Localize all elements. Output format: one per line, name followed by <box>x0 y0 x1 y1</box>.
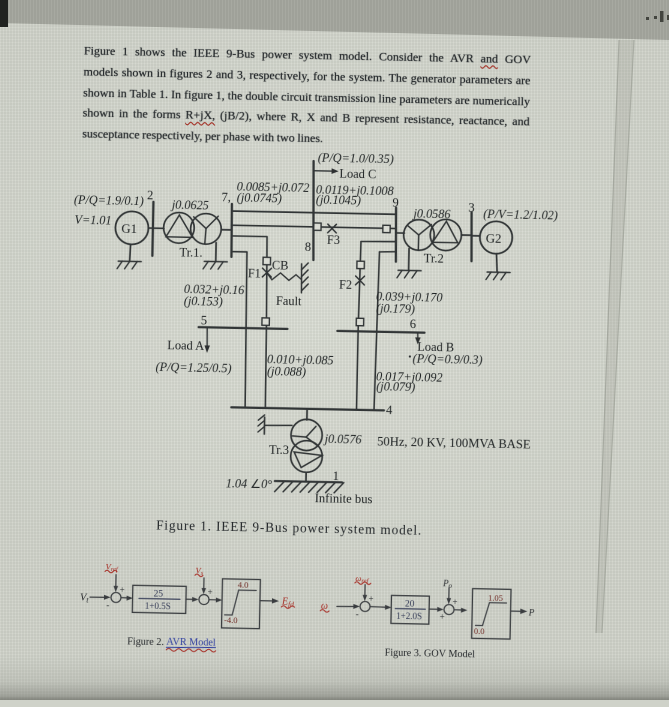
breaker square near bus 9 <box>383 225 390 232</box>
svg-text:j0.0576: j0.0576 <box>323 432 363 447</box>
fault zigzag wire <box>267 273 301 281</box>
wire summer 2 to limiter <box>209 597 222 602</box>
wire summer to block <box>121 595 133 600</box>
svg-text:F3: F3 <box>327 233 340 247</box>
svg-text:-: - <box>356 609 359 619</box>
wire Vt to summer <box>90 595 111 600</box>
figure 2 caption <box>127 637 164 649</box>
ground Tr.2 <box>397 270 421 278</box>
svg-text:1.05: 1.05 <box>488 593 503 603</box>
svg-text:-4.0: -4.0 <box>224 615 238 625</box>
ground G1 <box>117 261 141 269</box>
ground Tr.3 neutral <box>258 415 265 434</box>
svg-text:Infinite bus: Infinite bus <box>315 491 373 506</box>
omega-ref red label <box>355 573 369 585</box>
node 8 label <box>305 240 312 254</box>
wire line 7-5 / 5-4 circuit 1 <box>244 252 248 408</box>
sign plus <box>208 587 213 597</box>
sign plus <box>120 585 125 595</box>
svg-text:+: + <box>440 612 445 622</box>
svg-text:CB: CB <box>272 258 289 272</box>
limiter lower bound 0.0 <box>474 626 485 636</box>
wire branch bus7 to CB line <box>231 235 266 238</box>
generator G1 <box>115 211 149 245</box>
node 9 label <box>392 196 399 210</box>
wire branch bus9 to line 9-6 circuit 2 <box>361 241 396 242</box>
svg-text:20: 20 <box>405 600 415 610</box>
system base label <box>377 434 531 451</box>
figure 3 caption <box>385 647 476 660</box>
bus 8 <box>312 161 316 260</box>
svg-text:V=1.01: V=1.01 <box>74 213 111 228</box>
circuit breaker CB square <box>263 257 271 265</box>
svg-text:(j0.1045): (j0.1045) <box>316 193 361 208</box>
svg-text:(j0.079): (j0.079) <box>376 379 415 394</box>
load B arrow <box>415 334 421 345</box>
svg-text:Figure 2.: Figure 2. <box>127 637 164 649</box>
wire block to summer 2 <box>186 597 199 602</box>
transformer Tr.2 wye winding <box>403 219 434 250</box>
wire block to summer 2 <box>429 607 444 612</box>
omega-ref red squiggle <box>355 582 371 585</box>
summing junction U2 <box>199 594 209 604</box>
line 7-8 value labels <box>236 180 309 206</box>
wire line 5-4 circuit 2 <box>265 329 267 408</box>
svg-text:Po: Po <box>442 578 453 590</box>
output wire Efd <box>260 598 279 604</box>
GOV transfer block 20/(1+2.0S) <box>391 595 429 624</box>
svg-text:Load C: Load C <box>339 166 376 181</box>
svg-text:+: + <box>120 585 125 595</box>
wire summer 2 to limiter <box>454 608 467 613</box>
svg-text:Tr.2: Tr.2 <box>424 251 444 265</box>
input Vt label <box>80 592 90 604</box>
infinite bus voltage label <box>226 476 273 491</box>
wire branch bus7 to line 7-5 circuit 1 <box>231 251 246 253</box>
wire bus 4 to Tr.3 <box>306 409 308 420</box>
limiter upper bound 1.05 <box>488 593 503 603</box>
line 8-9 value labels <box>316 183 394 209</box>
summing junction U4 <box>444 604 454 614</box>
Vref input arrow <box>113 575 118 593</box>
node 3 label <box>468 201 475 215</box>
svg-text:1.04 ∠0°: 1.04 ∠0° <box>226 476 273 491</box>
infinite bus bar <box>275 481 342 482</box>
Efd red squiggle <box>281 606 294 609</box>
label CB <box>272 258 289 272</box>
sign minus <box>106 600 109 610</box>
value j0.0576 <box>323 432 363 447</box>
wire line 6-4 circuit 2 <box>357 331 359 409</box>
svg-text:(P/V=1.2/1.02): (P/V=1.2/1.02) <box>483 207 558 222</box>
breaker square above bus 6 <box>356 318 364 326</box>
svg-text:-: - <box>106 600 109 610</box>
wire line 9-6 circuit 2 (through F2) <box>358 241 361 331</box>
svg-text:Figure 1. IEEE 9-Bus power sy: Figure 1. IEEE 9-Bus power system model. <box>156 517 422 537</box>
sign plus <box>452 597 457 607</box>
wire bus 9 to Tr.2 <box>396 232 404 234</box>
limiter block <box>472 589 511 639</box>
load B name <box>417 339 454 354</box>
load C value label <box>318 151 394 167</box>
transformer Tr.2 delta winding <box>430 219 462 251</box>
ground G2 <box>486 272 510 280</box>
Pm label <box>528 607 535 617</box>
bus 9 <box>395 208 397 262</box>
svg-text:Tr.1.: Tr.1. <box>179 245 202 259</box>
fault point F2 cross <box>356 276 365 285</box>
Po input arrow <box>446 588 451 604</box>
ground stem Tr.1 <box>215 243 217 261</box>
Vref red squiggle <box>105 570 117 573</box>
limiter block <box>222 579 261 629</box>
wire Tr.1 to bus 7 <box>221 229 231 231</box>
summing junction U3 <box>360 601 370 611</box>
input omega red label <box>321 601 328 612</box>
wire Tr.3 to infinite bus <box>305 472 307 481</box>
figure 1 caption <box>156 517 422 537</box>
svg-text:AVR Model: AVR Model <box>166 637 216 649</box>
ground stem G2 <box>496 254 497 272</box>
AVR transfer block 25/(1+0.5S) <box>132 585 186 613</box>
svg-text:5: 5 <box>201 313 208 327</box>
omega red squiggle <box>320 609 329 612</box>
figure 2 caption link AVR Model <box>166 637 216 649</box>
svg-text:Efd: Efd <box>281 596 294 608</box>
wire line 7-5 circuit 2 (through CB) <box>265 237 268 329</box>
Po label <box>442 578 453 590</box>
Vs red label <box>195 565 203 577</box>
label F2 <box>339 277 352 291</box>
svg-text:Load A: Load A <box>167 338 204 353</box>
ground stem Tr.2 <box>408 248 410 269</box>
fault point F1 cross <box>262 268 271 277</box>
label Tr.3 <box>269 443 289 457</box>
line 5-4 value labels <box>267 352 334 379</box>
sign minus <box>356 609 359 619</box>
omega-ref input arrow <box>362 585 367 602</box>
output wire Pm <box>511 608 528 614</box>
svg-text:Tr.3: Tr.3 <box>269 443 289 457</box>
svg-text:2: 2 <box>147 188 154 202</box>
label F3 <box>327 233 340 247</box>
stray dot <box>409 355 411 357</box>
fault point F3 cross <box>328 224 337 233</box>
svg-text:4: 4 <box>386 403 393 417</box>
breaker square top of F2 line <box>357 261 365 269</box>
load C arrow <box>314 168 338 174</box>
fault wall <box>301 263 309 293</box>
label Tr.1. <box>179 245 202 259</box>
svg-text:P: P <box>528 607 535 617</box>
sign plus <box>368 594 373 604</box>
svg-text:Fault: Fault <box>276 294 302 309</box>
svg-text:25: 25 <box>153 590 163 600</box>
wire corridor 7-8-9 circuit 1 <box>232 211 396 214</box>
bus 3 <box>471 212 473 261</box>
svg-text:F2: F2 <box>339 277 352 291</box>
wire line 9-6 / 6-4 circuit 1 <box>374 252 379 410</box>
svg-text:0.0: 0.0 <box>474 626 485 636</box>
svg-text:1+2.0S: 1+2.0S <box>396 611 422 622</box>
bus 5 <box>199 327 288 329</box>
svg-text:(j0.153): (j0.153) <box>184 294 223 309</box>
label F1 <box>248 266 261 280</box>
wire branch bus9 to line 9-6 circuit 1 <box>379 250 395 253</box>
node 5 label <box>201 313 208 327</box>
node 2 label <box>147 188 154 202</box>
load C name <box>339 166 376 181</box>
wire G1 to Tr.1 <box>148 227 163 229</box>
svg-text:Vt: Vt <box>80 592 90 604</box>
transformer Tr.1 delta winding <box>163 212 194 243</box>
svg-text:F1: F1 <box>248 266 261 280</box>
svg-text:(j0.088): (j0.088) <box>267 364 306 379</box>
svg-text:Figure 3. GOV Model: Figure 3. GOV Model <box>385 647 476 660</box>
Vref red label <box>105 561 119 573</box>
infinite bus name <box>315 491 373 506</box>
limiter lower bound -4.0 <box>224 615 238 625</box>
sign plus lower <box>440 612 445 622</box>
node 6 label <box>410 317 417 331</box>
svg-text:G2: G2 <box>486 232 502 246</box>
transformer Tr.1 wye winding <box>190 213 221 244</box>
wire bus 3 to G2 <box>472 235 480 237</box>
generator G2 value label <box>483 207 558 222</box>
limiter upper bound 4.0 <box>238 580 249 590</box>
load B value label <box>413 352 483 367</box>
svg-text:1+0.5S: 1+0.5S <box>145 601 171 612</box>
label Fault <box>276 294 302 309</box>
value j0.0625 <box>170 198 209 213</box>
load A name <box>167 338 204 353</box>
svg-text:j0.0625: j0.0625 <box>170 198 209 213</box>
svg-text:4.0: 4.0 <box>238 580 249 590</box>
infinite bus hatching <box>275 481 344 493</box>
wire Tr.2 to bus 3 <box>461 234 471 236</box>
wire summer to block <box>370 605 391 610</box>
svg-text:(P/Q=0.9/0.3): (P/Q=0.9/0.3) <box>413 352 483 367</box>
node 7 label <box>221 190 231 204</box>
bus 4 <box>231 407 384 410</box>
summing junction U1 <box>111 592 121 602</box>
svg-text:+: + <box>208 587 213 597</box>
ground stem G1 <box>129 244 132 261</box>
Vs input arrow <box>201 578 206 594</box>
svg-text:8: 8 <box>305 240 312 254</box>
svg-text:6: 6 <box>410 317 417 331</box>
svg-text:1: 1 <box>333 469 340 483</box>
line 9-6 value labels <box>376 289 443 316</box>
svg-text:(P/Q=1.0/0.35): (P/Q=1.0/0.35) <box>318 151 394 167</box>
Vs red squiggle <box>195 574 203 577</box>
svg-text:G1: G1 <box>121 222 137 236</box>
load A arrow <box>204 328 210 353</box>
value j0.0586 <box>411 207 451 222</box>
wire Tr.3 neutral <box>264 424 292 427</box>
line 7-5 value labels <box>184 282 246 309</box>
svg-text:(P/Q=1.9/0.1): (P/Q=1.9/0.1) <box>74 193 144 208</box>
generator G2 <box>480 221 513 254</box>
svg-text:7,: 7, <box>221 190 231 204</box>
breaker square at bus 8 <box>314 223 321 230</box>
limiter curve <box>476 602 507 626</box>
line 6-4 value labels <box>376 369 443 394</box>
limiter curve <box>225 590 256 616</box>
wire omega to summer <box>337 604 360 609</box>
wire corridor 7-8-9 circuit 2 <box>231 225 395 228</box>
transformer Tr.3 lower delta winding <box>290 440 322 472</box>
breaker square above bus 5 <box>262 318 270 326</box>
svg-text:(P/Q=1.25/0.5): (P/Q=1.25/0.5) <box>155 360 231 376</box>
node 4 label <box>386 403 393 417</box>
svg-text:+: + <box>368 594 373 604</box>
Efd red label <box>281 596 294 608</box>
transformer Tr.3 upper wye winding <box>291 419 323 451</box>
load A value label <box>155 360 231 376</box>
svg-text:(j0.179): (j0.179) <box>376 301 415 316</box>
generator G1 value labels <box>73 193 144 228</box>
bus 7 <box>231 204 233 257</box>
bus 6 <box>337 331 424 333</box>
bus 2 <box>152 202 153 256</box>
svg-text:+: + <box>452 597 457 607</box>
label Tr.2 <box>424 251 444 265</box>
ground Tr.1 <box>203 261 227 269</box>
svg-text:(j0.0745): (j0.0745) <box>237 191 282 206</box>
node 1 label <box>333 469 340 483</box>
svg-text:50Hz, 20 KV, 100MVA BASE: 50Hz, 20 KV, 100MVA BASE <box>377 434 531 451</box>
